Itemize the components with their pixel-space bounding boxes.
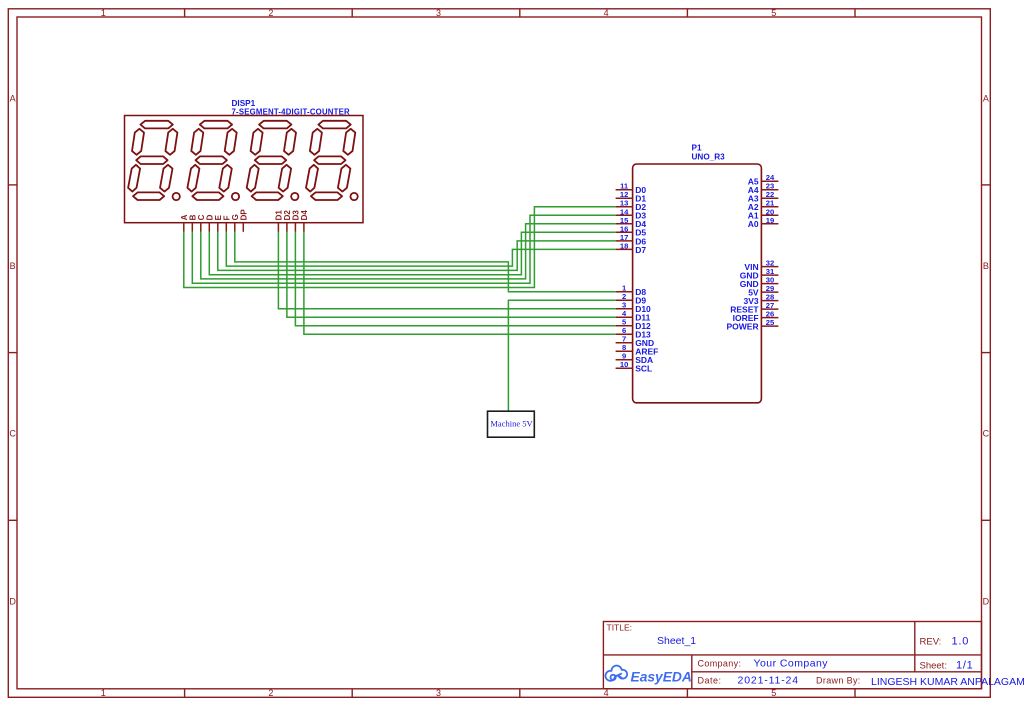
svg-text:D: D — [9, 597, 16, 607]
svg-text:7-SEGMENT-4DIGIT-COUNTER: 7-SEGMENT-4DIGIT-COUNTER — [232, 108, 350, 117]
svg-text:5: 5 — [771, 8, 776, 18]
P1 pin 12 (D1) left — [616, 190, 647, 203]
net label Machine 5V box — [488, 411, 535, 437]
svg-text:REV:: REV: — [920, 637, 942, 648]
DISP1 7-segment digit 1 — [128, 121, 180, 200]
svg-text:C: C — [983, 429, 990, 439]
wire DISP1-D to P1-D5 — [209, 232, 615, 275]
svg-text:B: B — [983, 261, 989, 271]
svg-text:5: 5 — [771, 688, 776, 698]
P1 pin 21 (A2) right — [748, 199, 779, 212]
title block date value 2021-11-24 — [738, 675, 799, 687]
DISP1 pin F — [223, 215, 232, 231]
DISP1 7-segment digit 4 — [306, 121, 358, 200]
P1 pin 14 (D3) left — [616, 207, 647, 220]
P1 pin 24 (A5) right — [748, 173, 779, 186]
svg-text:19: 19 — [766, 216, 774, 225]
P1 pin 2 (D9) left — [616, 292, 647, 305]
wire DISP1-D1 to P1-D10 — [278, 232, 615, 309]
svg-text:D4: D4 — [300, 210, 309, 221]
title block Drawn By label — [816, 676, 861, 686]
svg-text:Company:: Company: — [698, 659, 742, 669]
P1 pin 4 (D11) left — [616, 309, 651, 322]
P1 pin 9 (SDA) left — [616, 352, 654, 365]
svg-text:POWER: POWER — [726, 322, 758, 332]
svg-text:3: 3 — [436, 8, 441, 18]
P1 pin 15 (D4) left — [616, 216, 647, 229]
P1 pin 27 (RESET) right — [730, 301, 778, 314]
wire DISP1-G to P1-D8 — [235, 232, 616, 292]
DISP1 pin D1 — [275, 210, 284, 232]
title block outline — [603, 622, 981, 689]
P1 pin 16 (D5) left — [616, 224, 647, 237]
P1 pin 30 (GND) right — [740, 276, 779, 289]
title block revision value 1.0 — [952, 636, 970, 648]
P1 pin 11 (D0) left — [616, 182, 647, 195]
wire DISP1-D4 to P1-D13 — [304, 232, 616, 335]
P1 pin 1 (D8) left — [616, 284, 647, 297]
svg-text:Sheet_1: Sheet_1 — [657, 635, 696, 647]
svg-text:A0: A0 — [748, 219, 759, 229]
svg-text:LINGESH KUMAR ANPALAGAM: LINGESH KUMAR ANPALAGAM — [871, 676, 1025, 688]
P1 pin 8 (AREF) left — [616, 343, 659, 356]
svg-text:1.0: 1.0 — [952, 636, 970, 648]
wire DISP1-A to P1-D2 — [184, 207, 616, 288]
svg-text:TITLE:: TITLE: — [607, 623, 633, 633]
svg-text:D7: D7 — [635, 245, 646, 255]
svg-text:A: A — [10, 94, 16, 104]
P1 pin 20 (A1) right — [748, 207, 779, 220]
EasyEDA logo text — [631, 670, 692, 685]
wire DISP1-D2 to P1-D11 — [287, 232, 616, 318]
svg-text:UNO_R3: UNO_R3 — [692, 153, 726, 162]
svg-text:D: D — [983, 597, 990, 607]
wire DISP1-E to P1-D6 — [218, 232, 616, 271]
svg-text:Date:: Date: — [698, 676, 722, 686]
svg-text:2: 2 — [268, 8, 273, 18]
svg-text:B: B — [10, 261, 16, 271]
svg-text:4: 4 — [604, 688, 609, 698]
svg-text:Machine 5V: Machine 5V — [490, 419, 533, 429]
svg-text:3: 3 — [436, 688, 441, 698]
P1 pin 32 (VIN) right — [744, 259, 778, 272]
svg-text:Sheet:: Sheet: — [920, 661, 947, 672]
title block Company label — [698, 659, 742, 669]
P1 pin 23 (A4) right — [748, 182, 779, 195]
P1 value UNO_R3 — [692, 153, 726, 162]
DISP1 pin DP — [240, 209, 249, 232]
P1 pin 29 (5V) right — [748, 284, 778, 297]
DISP1 7-segment digit 2 — [187, 121, 239, 200]
DISP1 7-segment digit 3 — [247, 121, 299, 200]
P1 pin 6 (D13) left — [616, 326, 651, 339]
svg-text:Your Company: Your Company — [754, 658, 829, 670]
DISP1 pin G — [231, 214, 240, 232]
DISP1 pin E — [214, 214, 223, 231]
DISP1 pin D3 — [292, 210, 301, 232]
EasyEDA logo cloud icon — [606, 666, 628, 681]
P1 pin 26 (IOREF) right — [733, 310, 779, 323]
svg-text:C: C — [9, 429, 16, 439]
P1 pin 22 (A3) right — [748, 190, 779, 203]
DISP1 pin C — [197, 214, 206, 231]
P1 pin 31 (GND) right — [740, 267, 779, 280]
svg-text:10: 10 — [620, 360, 628, 369]
title block sheet name Sheet_1 — [657, 635, 696, 647]
DISP1 pin B — [189, 214, 198, 231]
component P1 UNO_R3 body outline — [633, 164, 762, 403]
DISP1 reference designator — [232, 99, 256, 108]
P1 pin 28 (3V3) right — [743, 293, 778, 306]
title block Sheet label — [920, 661, 947, 672]
P1 pin 10 (SCL) left — [616, 360, 653, 373]
DISP1 pin D4 — [300, 210, 309, 232]
svg-text:SCL: SCL — [635, 364, 652, 374]
DISP1 pin D — [206, 214, 215, 231]
svg-text:P1: P1 — [692, 144, 702, 153]
title block Date label — [698, 676, 722, 686]
P1 pin 13 (D2) left — [616, 199, 647, 212]
svg-text:1: 1 — [101, 8, 106, 18]
P1 pin 7 (GND) left — [616, 335, 654, 348]
P1 pin 25 (POWER) right — [726, 318, 778, 331]
title block TITLE label — [607, 623, 633, 633]
DISP1 pin A — [180, 214, 189, 231]
P1 pin 5 (D12) left — [616, 318, 651, 331]
DISP1 value 7-SEGMENT-4DIGIT-COUNTER — [232, 108, 350, 117]
svg-text:DP: DP — [240, 209, 249, 221]
svg-text:2021-11-24: 2021-11-24 — [738, 675, 799, 687]
wire Machine 5V to P1-D9 — [508, 300, 615, 411]
svg-text:1: 1 — [101, 688, 106, 698]
svg-text:4: 4 — [604, 8, 609, 18]
P1 pin 17 (D6) left — [616, 233, 647, 246]
svg-text:A: A — [983, 94, 989, 104]
title block sheet value 1/1 — [956, 660, 973, 672]
title block company value Your Company — [754, 658, 829, 670]
DISP1 pin D2 — [283, 210, 292, 232]
svg-text:1/1: 1/1 — [956, 660, 973, 672]
component DISP1 body outline — [125, 116, 364, 223]
title block REV label — [920, 637, 942, 648]
svg-text:18: 18 — [620, 241, 628, 250]
svg-text:Drawn By:: Drawn By: — [816, 676, 861, 686]
svg-text:EasyEDA: EasyEDA — [631, 670, 692, 685]
wire DISP1-D3 to P1-D12 — [295, 232, 615, 326]
P1 pin 3 (D10) left — [616, 301, 651, 314]
wire DISP1-F to P1-D7 — [226, 232, 615, 267]
wire DISP1-C to P1-D4 — [201, 224, 616, 279]
wire DISP1-B to P1-D3 — [192, 215, 615, 283]
title block drawn by value LINGESH KUMAR ANPALAGAM — [871, 676, 1025, 688]
P1 pin 19 (A0) right — [748, 216, 779, 229]
svg-text:25: 25 — [766, 318, 775, 327]
P1 reference designator — [692, 144, 702, 153]
svg-text:2: 2 — [268, 688, 273, 698]
P1 pin 18 (D7) left — [616, 241, 647, 254]
